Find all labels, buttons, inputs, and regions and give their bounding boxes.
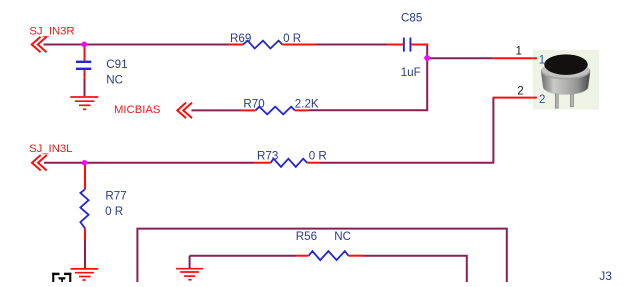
svg-text:SJ_IN3L: SJ_IN3L xyxy=(29,143,72,155)
svg-text:0 R: 0 R xyxy=(283,32,301,45)
svg-text:R70: R70 xyxy=(243,98,264,111)
svg-text:J3: J3 xyxy=(599,269,612,282)
svg-text:R77: R77 xyxy=(105,189,126,202)
svg-text:1: 1 xyxy=(539,55,545,67)
svg-text:C91: C91 xyxy=(106,58,127,71)
svg-text:R73: R73 xyxy=(257,150,278,163)
svg-text:2: 2 xyxy=(539,94,545,106)
svg-text:C85: C85 xyxy=(401,12,422,25)
svg-text:1uF: 1uF xyxy=(401,66,421,79)
svg-text:NC: NC xyxy=(334,230,351,243)
svg-text:0 R: 0 R xyxy=(105,205,123,218)
svg-text:0 R: 0 R xyxy=(309,150,327,163)
svg-text:SJ_IN3R: SJ_IN3R xyxy=(29,25,74,37)
svg-text:NC: NC xyxy=(106,73,123,86)
svg-text:2.2K: 2.2K xyxy=(295,97,319,110)
svg-text:R56: R56 xyxy=(296,230,317,243)
svg-text:1: 1 xyxy=(516,44,522,57)
svg-text:2: 2 xyxy=(517,84,523,97)
svg-text:MICBIAS: MICBIAS xyxy=(114,104,161,116)
svg-text:R69: R69 xyxy=(230,32,251,45)
